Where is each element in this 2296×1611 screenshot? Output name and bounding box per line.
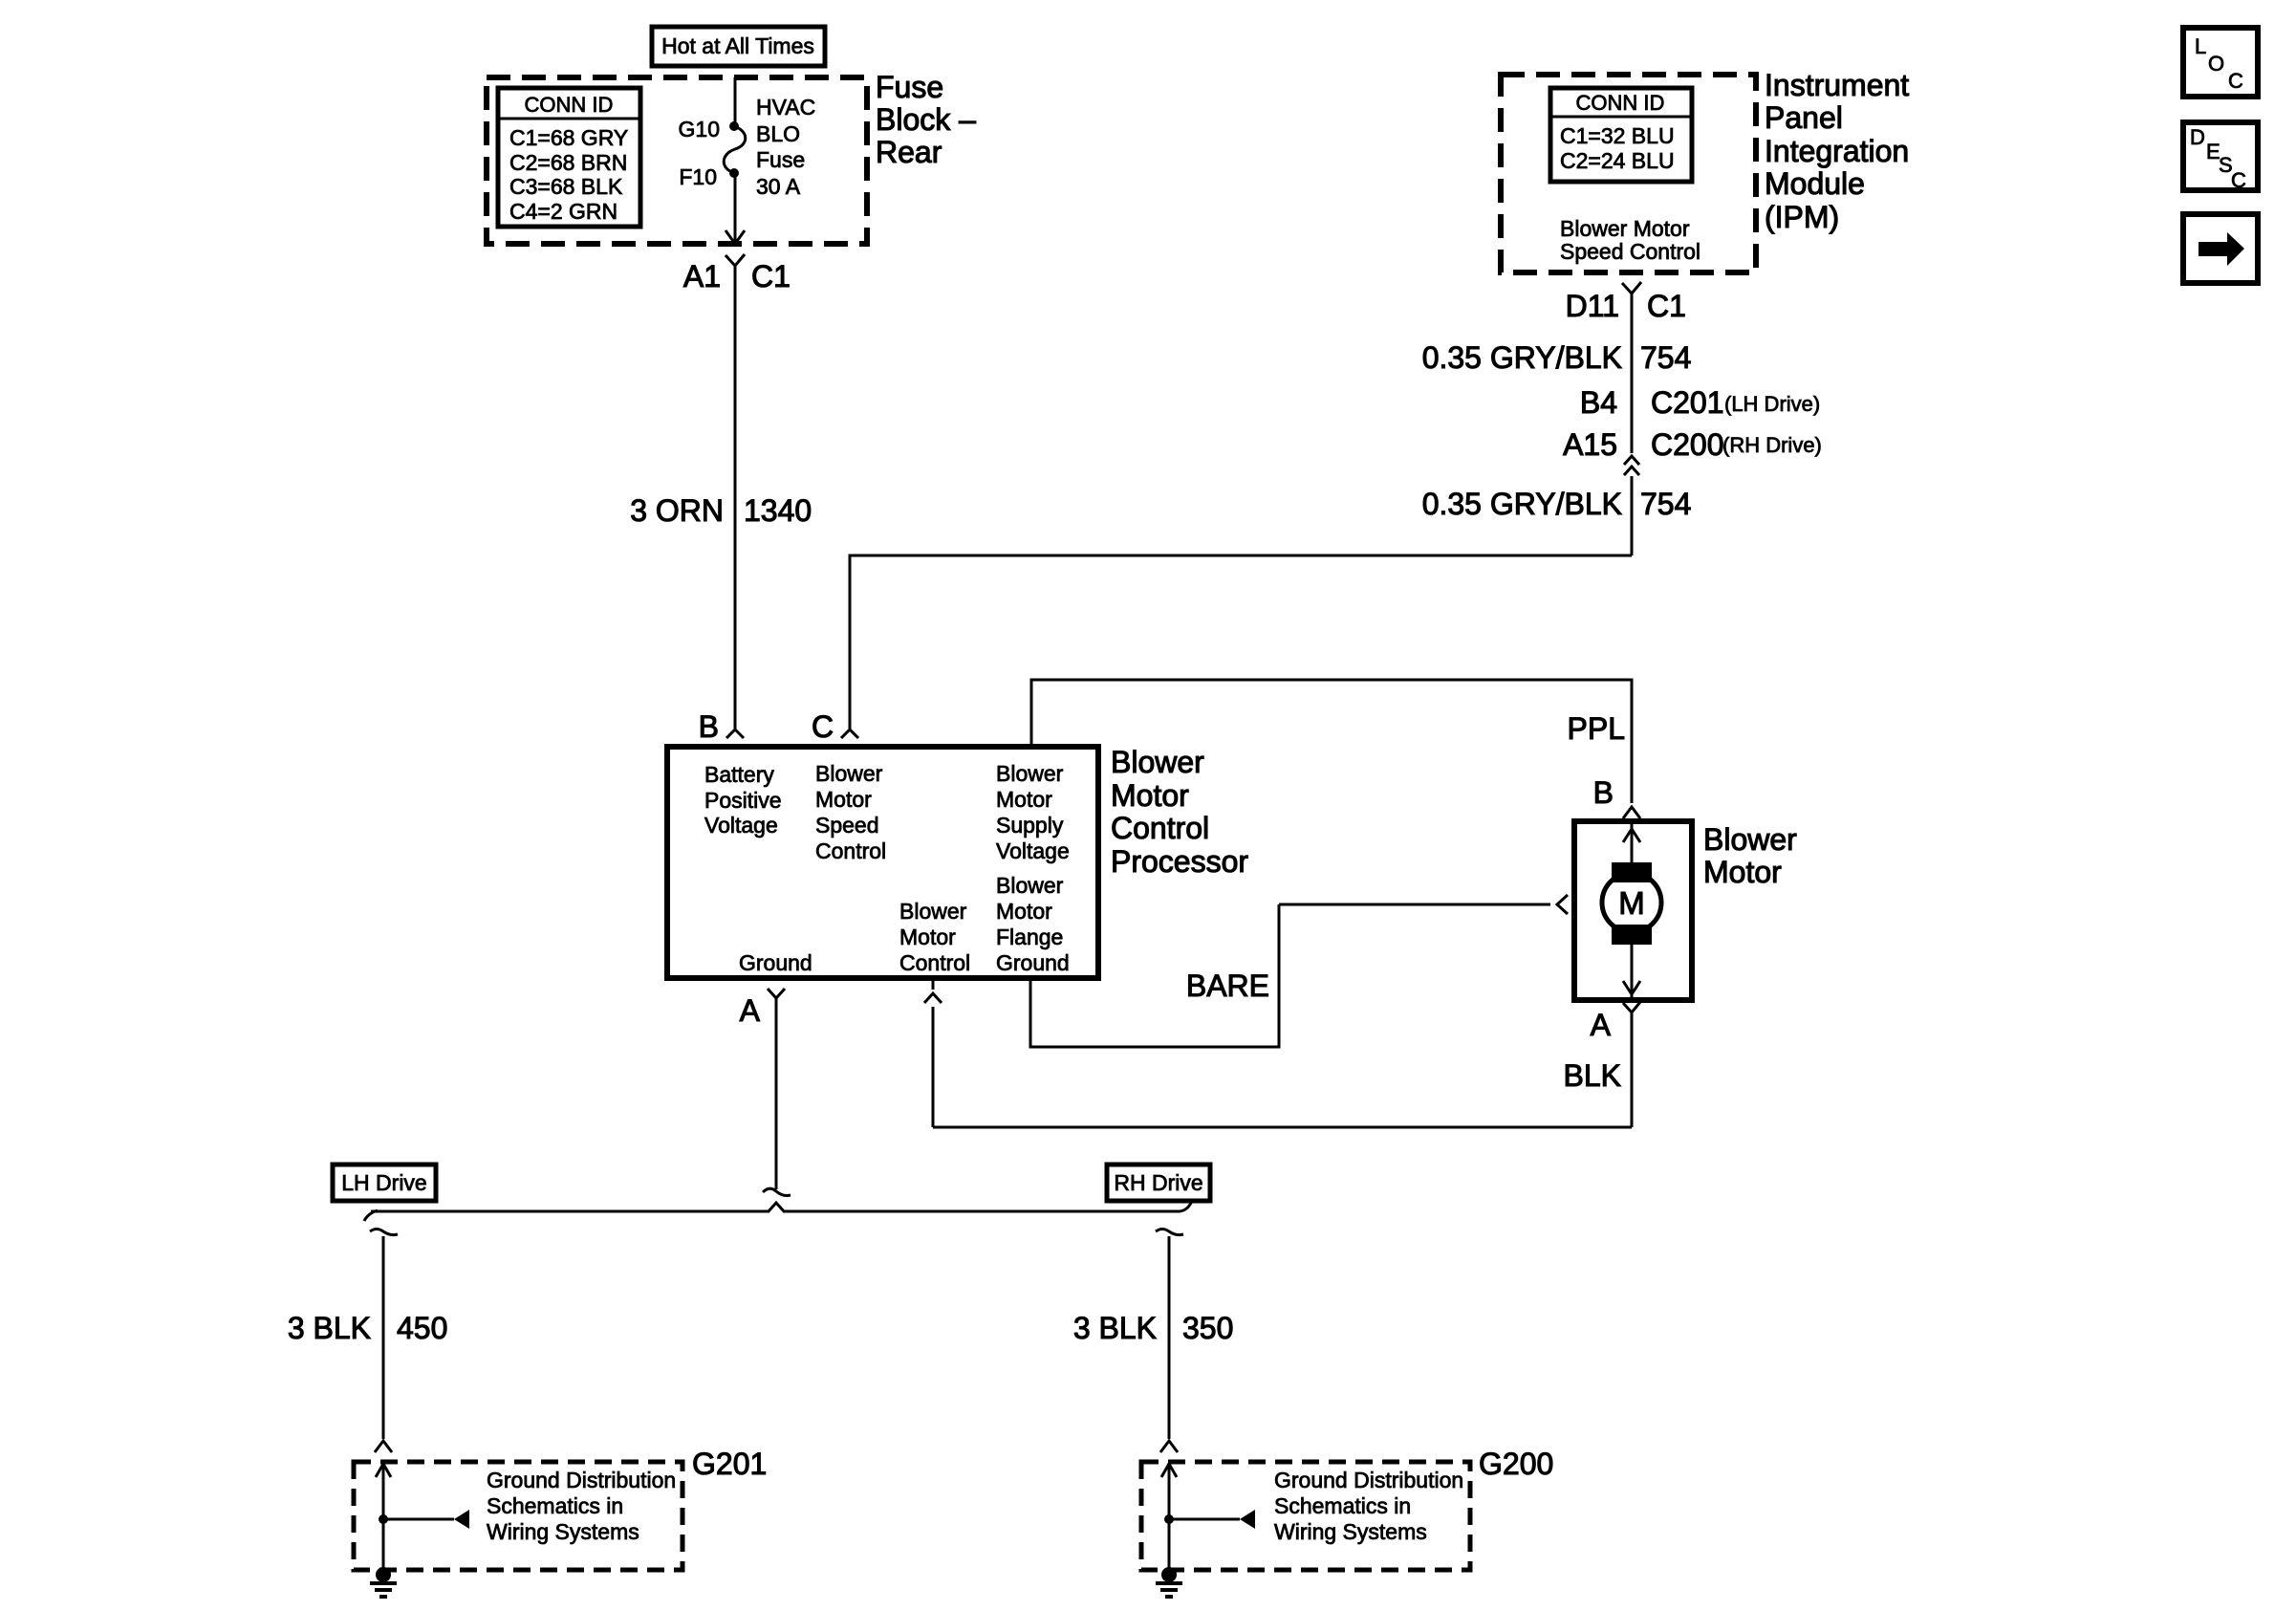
label LH Drive <box>333 1165 436 1201</box>
svg-text:Block –: Block – <box>876 102 976 137</box>
svg-text:Module: Module <box>1765 166 1865 201</box>
G200 ground symbol <box>1156 1463 1463 1597</box>
wire BLK motor return <box>924 978 1632 1127</box>
svg-text:LH Drive: LH Drive <box>341 1170 426 1195</box>
svg-text:G200: G200 <box>1479 1447 1553 1481</box>
blower motor supply voltage wire PPL <box>1031 680 1632 803</box>
icon DESC <box>2183 122 2258 192</box>
svg-text:0.35 GRY/BLK: 0.35 GRY/BLK <box>1422 487 1622 521</box>
G201 ground symbol <box>370 1463 676 1597</box>
wire 3 BLK 350 <box>1073 1230 1234 1453</box>
svg-text:PPL: PPL <box>1568 711 1625 746</box>
svg-text:Fuse: Fuse <box>876 70 943 104</box>
svg-text:Blower: Blower <box>996 761 1064 786</box>
node B pin chevron <box>699 709 744 744</box>
svg-text:C2=68 BRN: C2=68 BRN <box>509 150 627 175</box>
svg-text:Motor: Motor <box>1703 855 1782 889</box>
IPM CONN ID table <box>1550 88 1692 182</box>
svg-text:450: 450 <box>397 1311 447 1345</box>
blower motor control processor box <box>667 747 1098 978</box>
icon LOC <box>2183 28 2258 97</box>
svg-text:BLK: BLK <box>1564 1058 1621 1093</box>
blower motor box <box>1574 821 1692 1000</box>
svg-text:Flange: Flange <box>996 925 1063 949</box>
connector A1 / C1 <box>683 254 791 294</box>
svg-text:Schematics in: Schematics in <box>487 1493 623 1518</box>
svg-text:C4=2 GRN: C4=2 GRN <box>509 199 617 224</box>
svg-text:BLO: BLO <box>756 121 800 146</box>
fuse block rear dashed box <box>487 77 867 244</box>
svg-text:Blower: Blower <box>815 761 883 786</box>
svg-text:Panel: Panel <box>1765 100 1843 135</box>
svg-text:Speed Control: Speed Control <box>1560 239 1700 264</box>
svg-text:G201: G201 <box>692 1447 767 1481</box>
svg-text:C: C <box>812 709 834 744</box>
svg-text:Motor: Motor <box>899 925 956 949</box>
svg-text:A: A <box>740 993 761 1028</box>
svg-text:Ground: Ground <box>996 950 1070 975</box>
IPM name label <box>1765 68 1909 234</box>
svg-text:Motor: Motor <box>1111 778 1189 813</box>
svg-text:754: 754 <box>1640 487 1691 521</box>
icon next-page arrow <box>2183 214 2258 283</box>
svg-text:A1: A1 <box>683 259 721 294</box>
svg-text:(RH Drive): (RH Drive) <box>1722 433 1822 457</box>
svg-text:B: B <box>699 709 719 744</box>
svg-text:Wiring Systems: Wiring Systems <box>1274 1519 1427 1544</box>
svg-text:C200: C200 <box>1651 427 1724 462</box>
ground distribution split wire <box>364 1203 1191 1221</box>
label RH Drive <box>1107 1165 1210 1201</box>
svg-text:(LH Drive): (LH Drive) <box>1724 392 1820 416</box>
node B motor pin <box>1593 775 1640 818</box>
svg-text:Integration: Integration <box>1765 134 1909 168</box>
svg-text:Blower: Blower <box>899 899 967 924</box>
svg-text:Blower: Blower <box>1111 745 1204 779</box>
svg-text:0.35 GRY/BLK: 0.35 GRY/BLK <box>1422 340 1622 375</box>
wire 0.35 GRY/BLK 754 upper <box>1422 294 1692 453</box>
svg-text:1340: 1340 <box>744 493 812 528</box>
svg-text:BARE: BARE <box>1186 969 1269 1003</box>
svg-text:M: M <box>1618 885 1645 921</box>
svg-text:C1: C1 <box>751 259 791 294</box>
connector D11 / C1 <box>1566 282 1686 323</box>
svg-text:B4: B4 <box>1580 385 1617 420</box>
svg-text:HVAC: HVAC <box>756 95 815 120</box>
connector A ground pin <box>740 989 785 1028</box>
svg-text:Motor: Motor <box>996 899 1052 924</box>
svg-text:3 BLK: 3 BLK <box>288 1311 371 1345</box>
svg-text:Control: Control <box>899 950 970 975</box>
processor pin labels <box>704 761 1070 975</box>
svg-text:Control: Control <box>815 838 886 863</box>
label Hot at All Times <box>652 27 825 66</box>
svg-text:C: C <box>2231 168 2246 192</box>
svg-text:CONN ID: CONN ID <box>1576 91 1665 115</box>
svg-text:Speed: Speed <box>815 813 879 838</box>
svg-text:D: D <box>2190 125 2205 149</box>
svg-text:Voltage: Voltage <box>996 838 1070 863</box>
svg-text:Supply: Supply <box>996 813 1064 838</box>
svg-text:L: L <box>2195 34 2206 58</box>
motor flange wire BARE <box>1030 895 1568 1047</box>
wire from hot feed to fuse terminal G10 <box>734 77 737 126</box>
svg-text:CONN ID: CONN ID <box>525 93 614 117</box>
svg-text:C201: C201 <box>1651 385 1724 420</box>
svg-text:Voltage: Voltage <box>704 813 778 838</box>
ground wire from A <box>763 998 791 1196</box>
svg-text:Hot at All Times: Hot at All Times <box>661 33 814 58</box>
svg-text:Ground: Ground <box>739 950 812 975</box>
svg-text:A15: A15 <box>1563 427 1617 462</box>
svg-text:C1: C1 <box>1647 289 1686 323</box>
svg-text:30 A: 30 A <box>756 174 801 199</box>
svg-text:350: 350 <box>1182 1311 1233 1345</box>
svg-text:G10: G10 <box>679 117 720 142</box>
svg-text:Ground Distribution: Ground Distribution <box>1274 1468 1463 1492</box>
svg-text:C: C <box>2228 69 2243 93</box>
svg-text:B: B <box>1593 775 1614 810</box>
svg-text:Blower Motor: Blower Motor <box>1560 216 1690 241</box>
svg-text:Blower: Blower <box>996 873 1064 898</box>
svg-text:(IPM): (IPM) <box>1765 200 1839 234</box>
svg-text:Processor: Processor <box>1111 844 1248 879</box>
blower motor name label <box>1703 822 1797 889</box>
wire 3 ORN 1340 <box>630 266 812 729</box>
svg-text:C1=68 GRY: C1=68 GRY <box>509 125 628 150</box>
svg-text:Wiring Systems: Wiring Systems <box>487 1519 639 1544</box>
wire from fuse to fuse block edge with arrow <box>726 173 745 244</box>
svg-text:Motor: Motor <box>815 787 872 812</box>
fuse block name label <box>876 70 976 169</box>
svg-text:754: 754 <box>1640 340 1691 375</box>
node C branch wire <box>812 555 1632 744</box>
svg-text:Instrument: Instrument <box>1765 68 1909 102</box>
svg-text:Rear: Rear <box>876 135 942 169</box>
svg-text:3 BLK: 3 BLK <box>1073 1311 1157 1345</box>
wire 3 BLK 450 <box>288 1230 448 1453</box>
svg-text:Schematics in: Schematics in <box>1274 1493 1411 1518</box>
svg-text:F10: F10 <box>679 164 717 189</box>
svg-text:3 ORN: 3 ORN <box>630 493 724 528</box>
in-line connector B4/C201 (LH) A15/C200 (RH) <box>1563 385 1822 475</box>
svg-text:C1=32 BLU: C1=32 BLU <box>1560 123 1675 148</box>
connector A motor pin <box>1591 1002 1640 1042</box>
svg-text:Motor: Motor <box>996 787 1052 812</box>
IPM dashed box <box>1501 75 1756 272</box>
svg-text:A: A <box>1591 1008 1612 1042</box>
processor name label <box>1111 745 1248 879</box>
ground G201 dashed box <box>354 1447 767 1570</box>
svg-text:O: O <box>2208 52 2224 76</box>
svg-text:Blower: Blower <box>1703 822 1797 857</box>
fuse HVAC BLO 30A <box>679 95 816 199</box>
svg-text:Control: Control <box>1111 811 1209 845</box>
svg-text:C2=24 BLU: C2=24 BLU <box>1560 148 1675 173</box>
svg-text:RH Drive: RH Drive <box>1114 1170 1202 1195</box>
wire 0.35 GRY/BLK 754 lower <box>1422 476 1692 555</box>
svg-text:D11: D11 <box>1566 289 1619 323</box>
fuse block CONN ID table <box>498 88 640 227</box>
svg-text:Fuse: Fuse <box>756 147 805 172</box>
svg-text:Ground Distribution: Ground Distribution <box>487 1468 676 1492</box>
svg-text:Battery: Battery <box>704 762 774 787</box>
svg-text:C3=68 BLK: C3=68 BLK <box>509 174 623 199</box>
ground G200 dashed box <box>1141 1447 1553 1570</box>
svg-text:Positive: Positive <box>704 788 782 813</box>
IPM pin function label <box>1560 216 1700 264</box>
